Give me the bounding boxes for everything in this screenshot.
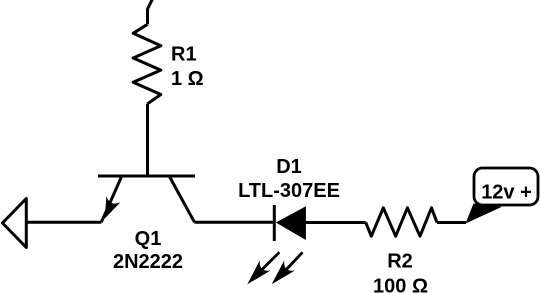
- wire D1 to R2: [306, 221, 366, 224]
- wire top stub: [148, 0, 154, 24]
- net flag 12v+ tail: [466, 204, 503, 224]
- net arrow pointer: [3, 199, 27, 248]
- LED light arrow 1: [247, 252, 279, 284]
- wire Q1 emitter to net arrow: [26, 221, 101, 224]
- resistor R1: [133, 24, 161, 104]
- svg-text:2N2222: 2N2222: [113, 251, 183, 273]
- svg-text:Q1: Q1: [135, 228, 162, 250]
- svg-text:1 Ω: 1 Ω: [171, 68, 204, 90]
- svg-text:R1: R1: [171, 44, 197, 66]
- svg-text:100 Ω: 100 Ω: [373, 276, 428, 293]
- diode D1 (LED): [274, 205, 306, 241]
- wire R2 to 12v flag: [437, 221, 466, 224]
- wire Q1 collector to D1: [195, 221, 275, 224]
- net flag 12v+ box: [474, 168, 538, 205]
- resistor R2: [366, 208, 437, 236]
- svg-text:LTL-307EE: LTL-307EE: [238, 180, 340, 202]
- wire R1 to Q1 base: [146, 104, 149, 176]
- svg-text:12v +: 12v +: [481, 182, 532, 204]
- svg-text:R2: R2: [387, 251, 413, 273]
- transistor Q1: [98, 176, 195, 222]
- svg-text:D1: D1: [276, 156, 302, 178]
- LED light arrow 2: [272, 252, 303, 284]
